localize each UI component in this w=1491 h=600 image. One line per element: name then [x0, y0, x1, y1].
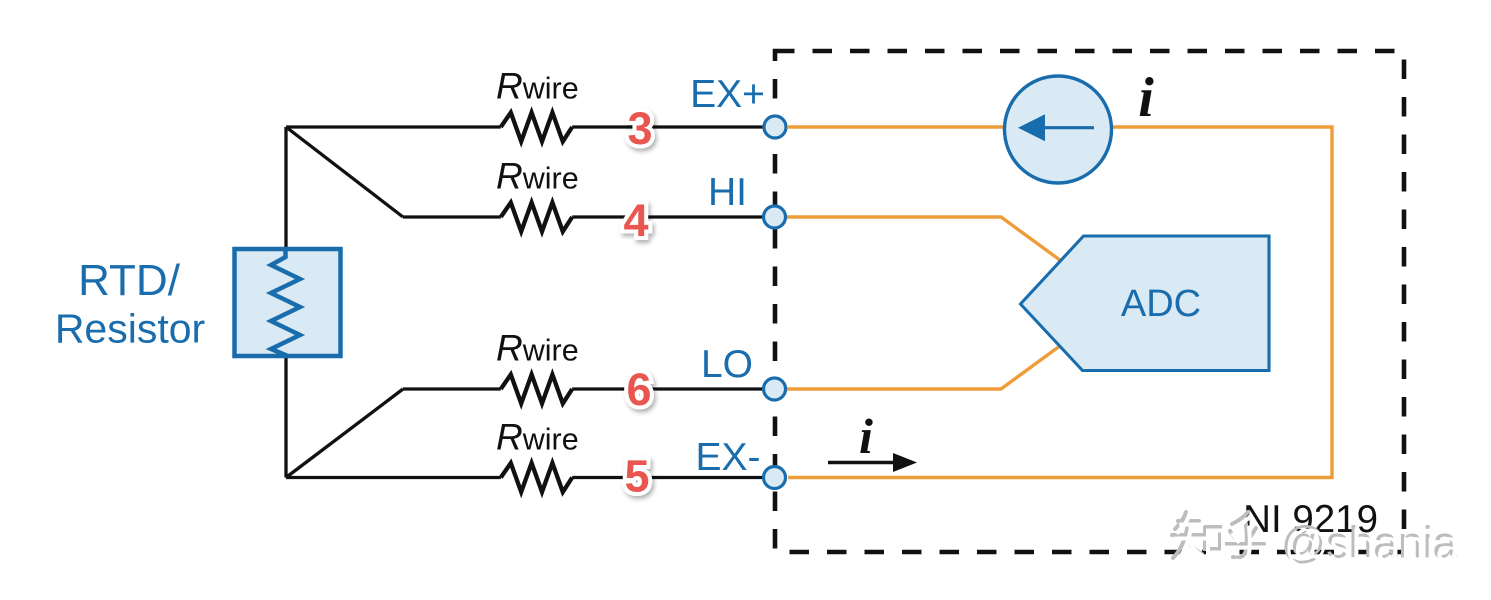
svg-text:LO: LO	[701, 343, 753, 386]
svg-text:6: 6	[626, 364, 651, 415]
svg-text:Rwire: Rwire	[496, 156, 579, 197]
svg-text:Rwire: Rwire	[496, 66, 579, 107]
svg-text:@shania: @shania	[1284, 522, 1461, 571]
svg-text:5: 5	[624, 451, 649, 502]
svg-text:3: 3	[627, 103, 652, 154]
svg-text:ADC: ADC	[1121, 283, 1201, 325]
svg-text:i: i	[859, 408, 873, 464]
svg-text:RTD/: RTD/	[78, 256, 181, 305]
svg-text:Rwire: Rwire	[496, 417, 579, 458]
svg-text:Rwire: Rwire	[496, 328, 579, 369]
svg-text:i: i	[1138, 67, 1154, 129]
svg-text:EX-: EX-	[695, 436, 760, 479]
svg-text:EX+: EX+	[690, 73, 765, 116]
svg-text:4: 4	[623, 195, 648, 246]
svg-text:HI: HI	[708, 171, 747, 214]
svg-text:Resistor: Resistor	[55, 306, 205, 352]
